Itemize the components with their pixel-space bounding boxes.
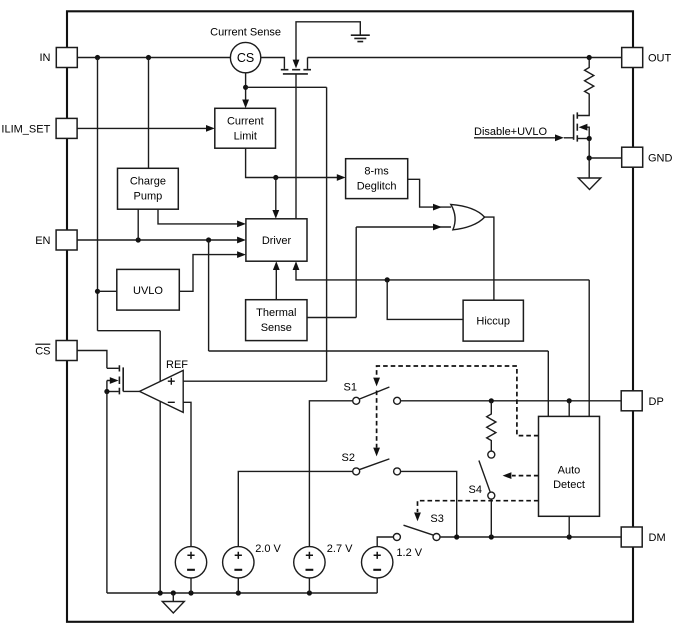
svg-text:Current: Current: [227, 116, 264, 128]
node: M3 source junction: [104, 389, 109, 394]
wire: 2.7V source up to switch S1: [309, 401, 352, 547]
wire: thermal sense top to driver bottom: [275, 270, 277, 300]
transistor M3 gate bar: [122, 367, 124, 391]
block: Current Limit: [215, 108, 276, 148]
wire: OUT net from pass FET to OUT pin: [308, 57, 622, 59]
switch S4: [488, 451, 495, 458]
resistor R1 discharge resistor: [578, 58, 594, 116]
transistor M3 body stub with arrow: [107, 381, 111, 392]
wire: IN net from pin to CS circle: [77, 57, 230, 59]
node: fault net junction to hiccup: [385, 277, 390, 282]
wire: thermal sense output to OR gate input 2: [307, 227, 451, 318]
transistor M2 source stub: [578, 138, 590, 140]
transistor M3 drain stub: [107, 367, 119, 369]
node: rail junction 2.7V source: [307, 590, 312, 595]
wire: 2.0V source up to switch S2: [238, 471, 352, 546]
transistor M3 contact bars: [118, 365, 120, 394]
svg-text:ILIM_SET: ILIM_SET: [1, 124, 50, 136]
svg-text:S2: S2: [342, 452, 355, 464]
block: UVLO: [117, 269, 180, 310]
svg-text:Limit: Limit: [234, 130, 257, 142]
wire: GND net down to ground triangle: [588, 158, 590, 178]
block: Charge Pump: [118, 168, 179, 209]
svg-text:DP: DP: [649, 396, 664, 408]
ground symbol at rail (open triangle): [172, 593, 174, 602]
svg-text:Thermal: Thermal: [256, 307, 296, 319]
svg-text:OUT: OUT: [648, 53, 672, 65]
switch S2: [353, 468, 360, 475]
svg-text:Current Sense: Current Sense: [210, 27, 281, 39]
node: rail junction UVLO chain: [158, 590, 163, 595]
dashed control: auto detect to S4: [512, 475, 539, 477]
wire: DP to auto detect top: [568, 401, 570, 417]
switch S1: [353, 397, 360, 404]
wire: M3 gate from REF amp output: [123, 390, 139, 392]
pin OUT: [622, 48, 643, 68]
dashed control: auto detect to S1 and S2: [377, 366, 539, 436]
wire: current limit output to 8-ms deglitch: [246, 148, 338, 177]
wire: EN up to charge pump bottom: [137, 209, 139, 240]
pin DM: [621, 527, 642, 547]
block: Auto Detect: [539, 416, 600, 516]
wire: UVLO output to driver: [179, 255, 237, 292]
pin ILIM_SET: [56, 118, 77, 138]
wire: 1.2V source up to switch S3: [377, 537, 393, 547]
wire: M2 source to GND net: [588, 139, 590, 159]
voltage source V2 2.0 V: [223, 547, 254, 578]
node: rail junction 2.0V source: [236, 590, 241, 595]
wire: M3 source down to ground rail: [106, 392, 108, 594]
current sense element CS circle: [230, 42, 260, 72]
pin EN: [56, 230, 77, 250]
svg-text:Charge: Charge: [130, 176, 166, 188]
block: Thermal Sense: [246, 300, 307, 341]
transistor M2 body stub and arrow: [587, 127, 590, 138]
node: junction on IN net feeding UVLO chain: [95, 55, 100, 60]
node: M2 source/body junction: [587, 136, 592, 141]
svg-text:Deglitch: Deglitch: [357, 180, 397, 192]
svg-text:S4: S4: [469, 484, 482, 496]
transistor M1 channel contact bars: [281, 69, 311, 71]
node: junction feeding driver from current limit: [273, 175, 278, 180]
wire: CS pin to M3 drain: [77, 351, 107, 369]
svg-text:Hiccup: Hiccup: [476, 316, 510, 328]
svg-text:REF: REF: [166, 359, 188, 371]
wire: ILIM_SET to current limit: [77, 127, 206, 129]
svg-text:Auto: Auto: [558, 464, 581, 476]
svg-text:CS: CS: [35, 346, 50, 358]
wire: IN to charge pump top: [148, 58, 150, 169]
block: Driver: [246, 219, 307, 261]
voltage source V4 1.2 V: [362, 547, 393, 578]
wire: S1 to DP net: [401, 400, 622, 402]
voltage source V1 REF: [175, 547, 206, 578]
pin GND: [622, 147, 643, 167]
transistor M1 drain stub to OUT: [307, 58, 309, 69]
dashed control: auto detect to S3: [418, 501, 539, 512]
node: junction on OUT net to discharge resistor: [587, 55, 592, 60]
ground symbol near GND pin (open triangle): [578, 178, 600, 190]
wire: EN down and across to auto detect top: [209, 240, 549, 416]
node: rail junction ground triangle: [171, 590, 176, 595]
node: EN junction to auto-detect chain: [206, 237, 211, 242]
svg-text:UVLO: UVLO: [133, 285, 163, 297]
node: junction on IN net feeding charge pump: [146, 55, 151, 60]
pin IN: [56, 48, 77, 68]
svg-text:1.2 V: 1.2 V: [396, 547, 422, 559]
block: 8-ms Deglitch: [346, 159, 408, 199]
wire: driver output to pass FET gate: [295, 74, 297, 219]
wire: charge pump output to driver: [158, 209, 238, 224]
OR gate U2: [451, 204, 485, 229]
svg-text:Sense: Sense: [261, 322, 292, 334]
node: DP junction to resistor R2: [489, 398, 494, 403]
svg-text:8-ms: 8-ms: [364, 166, 389, 178]
node: DM junction S2 chain: [454, 534, 459, 539]
pin DP: [621, 391, 642, 411]
svg-text:Pump: Pump: [134, 190, 163, 202]
wire: S4 to DM net: [490, 499, 492, 537]
svg-text:Detect: Detect: [553, 479, 585, 491]
svg-text:GND: GND: [648, 153, 673, 165]
transistor M2 gate bar: [573, 114, 575, 139]
voltage source V3 2.7 V: [294, 547, 325, 578]
svg-text:EN: EN: [35, 235, 50, 247]
wire: IN to UVLO input chain: [98, 58, 161, 594]
node: junction at UVLO input: [95, 289, 100, 294]
block: Hiccup: [463, 300, 523, 341]
wire: CS circle bottom into current limit: [245, 73, 247, 100]
wire: DM net from S3 to DM pin: [440, 536, 621, 538]
svg-text:S1: S1: [344, 382, 357, 394]
wire: S2 to DM net: [401, 471, 457, 537]
transistor M1 gate bar: [283, 73, 308, 75]
op-amp U1 REF amplifier: [140, 370, 184, 412]
node: DM junction S4 chain: [489, 534, 494, 539]
svg-text:Driver: Driver: [262, 235, 292, 247]
node: DP junction to auto detect: [567, 398, 572, 403]
wire: UVLO left input: [98, 290, 117, 292]
svg-text:IN: IN: [40, 52, 51, 64]
node: rail junction REF source: [188, 590, 193, 595]
wire: EN net to driver: [77, 239, 237, 241]
node: EN junction to charge pump: [136, 237, 141, 242]
ground rail at bottom: [107, 592, 377, 594]
svg-text:CS: CS: [237, 51, 254, 65]
wire: REF amp inverting input to REF source: [183, 402, 191, 546]
node: current-sense junction below CS circle: [243, 85, 248, 90]
transistor M1 body connection to top ground: [296, 22, 360, 61]
resistor R2 on DP: [487, 401, 496, 451]
svg-text:DM: DM: [649, 532, 666, 544]
wire: 8-ms deglitch output to OR gate input 1: [408, 179, 451, 207]
wire: OR gate output to hiccup top: [485, 217, 494, 300]
transistor M1 pass FET source stub from CS circle: [261, 58, 285, 69]
wire: GND net to GND pin: [589, 157, 622, 159]
transistor M3 source stub: [107, 391, 119, 393]
wire: current limit to driver top: [275, 178, 277, 211]
switch S3: [393, 534, 400, 541]
svg-text:Disable+UVLO: Disable+UVLO: [474, 126, 548, 138]
pin CS (active low): [56, 341, 77, 361]
svg-text:2.7 V: 2.7 V: [327, 543, 353, 555]
wire: current sense signal to REF amp + input: [183, 87, 326, 381]
svg-text:S3: S3: [430, 513, 443, 525]
wire: auto detect bottom to DM net: [568, 516, 570, 537]
ground symbol at top (earth): [351, 35, 370, 41]
transistor M2 discharge FET contact bars: [576, 112, 578, 141]
svg-text:2.0 V: 2.0 V: [255, 543, 281, 555]
node: GND net junction: [587, 155, 592, 160]
wire: fault net from driver bottom across to auto detect top: [296, 270, 589, 416]
node: DM junction auto detect: [567, 534, 572, 539]
wire: fault net to hiccup left input: [387, 280, 463, 320]
